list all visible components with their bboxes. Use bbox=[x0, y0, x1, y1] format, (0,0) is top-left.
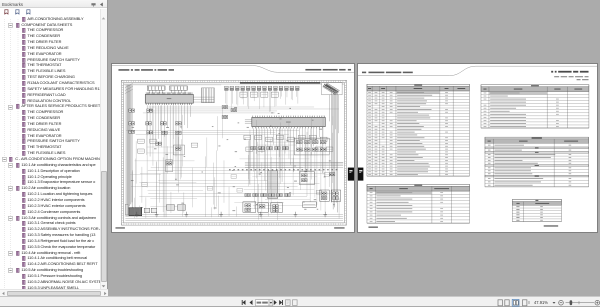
module A2 with connectors bbox=[299, 171, 314, 184]
wires from J1B pins bbox=[147, 105, 190, 164]
switch S16 bbox=[326, 147, 333, 151]
connector P12 bbox=[285, 86, 289, 105]
connector P8 bbox=[263, 86, 267, 107]
connector P14 bbox=[295, 86, 299, 104]
wires from loom W2 bbox=[330, 94, 339, 133]
connector C4 bbox=[146, 121, 152, 124]
wire bus crossing bbox=[245, 162, 343, 167]
connector comb CN1 bbox=[147, 85, 165, 92]
connector P5 bbox=[246, 86, 250, 109]
buzzer H2 bbox=[177, 204, 185, 209]
connector P4 bbox=[241, 86, 245, 104]
wire bundle center-left bbox=[164, 133, 178, 217]
footer right bbox=[544, 225, 558, 226]
switch S30 bbox=[144, 208, 149, 212]
relay K3 bbox=[261, 92, 268, 97]
switch S7 bbox=[266, 137, 273, 141]
connector P10 bbox=[274, 86, 278, 107]
switch S12 bbox=[320, 137, 327, 141]
connector in A1 bbox=[304, 148, 310, 151]
connector P13 bbox=[290, 86, 294, 100]
connector in A4 bbox=[259, 204, 265, 207]
module A7 with connectors bbox=[331, 190, 340, 201]
chapter thumb tab bbox=[348, 167, 354, 180]
connector in A2 bbox=[301, 178, 307, 181]
connector C31 bbox=[329, 172, 335, 175]
switch S20 bbox=[324, 172, 329, 176]
wires from J1A pins bbox=[253, 128, 322, 181]
terminal strip X1 bbox=[302, 201, 316, 206]
connector P6 bbox=[252, 86, 256, 101]
connector in A1 bbox=[296, 148, 302, 151]
connector in A6 bbox=[321, 191, 327, 194]
connector P9 bbox=[268, 86, 272, 112]
module A5 with connectors bbox=[271, 202, 283, 211]
connector in A5 bbox=[273, 208, 279, 211]
connector C26 bbox=[267, 146, 273, 149]
switch S8 bbox=[277, 135, 284, 139]
wire top run along frame bbox=[124, 83, 344, 86]
switch S5 bbox=[244, 135, 251, 139]
connector in A1 bbox=[312, 140, 318, 143]
switch S21 bbox=[237, 188, 242, 192]
header left bbox=[362, 71, 413, 73]
value labels scattered bbox=[131, 106, 335, 210]
page title left bbox=[118, 69, 174, 71]
connector J1A bbox=[252, 116, 325, 127]
connector C1 bbox=[129, 108, 135, 111]
connector J1B bbox=[145, 93, 193, 104]
wire bundle left vertical bbox=[125, 83, 133, 212]
connector C33 bbox=[253, 193, 259, 196]
connector of B2 bbox=[166, 161, 172, 164]
connector C12 bbox=[222, 115, 228, 118]
fuse F1 bbox=[125, 204, 128, 215]
connector in A7 bbox=[333, 191, 339, 194]
ground bbox=[259, 211, 263, 216]
relay K4 bbox=[271, 92, 278, 97]
switch S2 bbox=[150, 139, 156, 143]
connector C35 bbox=[269, 193, 275, 196]
switch S18 bbox=[207, 186, 212, 190]
connector P11 bbox=[279, 86, 283, 99]
ground bbox=[185, 211, 189, 216]
left page (schematic) bbox=[111, 63, 355, 233]
connector in A1 bbox=[296, 140, 302, 143]
connector C13 bbox=[231, 108, 237, 111]
connector C32 bbox=[245, 193, 251, 196]
header swoosh rule bbox=[112, 65, 354, 72]
connector C34 bbox=[261, 193, 267, 196]
connector in A1 bbox=[312, 148, 318, 151]
switch S6 bbox=[255, 135, 262, 139]
connector of B1 bbox=[175, 147, 181, 150]
connector in A7 bbox=[333, 196, 339, 199]
module A6 with connectors bbox=[320, 190, 329, 201]
sensor B2 bbox=[166, 159, 173, 171]
connector in A5 bbox=[273, 204, 279, 207]
connector C10 bbox=[175, 131, 181, 134]
switch S17 bbox=[142, 182, 147, 186]
header title right bbox=[551, 70, 588, 79]
connector C6 bbox=[129, 130, 135, 133]
connector P3 bbox=[235, 86, 239, 105]
switch S19 bbox=[231, 174, 236, 178]
switch S3 bbox=[138, 148, 144, 152]
ground bbox=[135, 211, 139, 216]
cable loom W2 diagonal bbox=[322, 82, 342, 94]
module A3 with connectors bbox=[243, 201, 256, 211]
module A1 with connectors bbox=[294, 138, 329, 155]
svg-text:47.91%: 47.91% bbox=[534, 300, 548, 305]
switch S22 bbox=[316, 190, 321, 194]
relay K5 power block bbox=[129, 207, 142, 215]
ground bbox=[155, 211, 159, 216]
buzzer H1 bbox=[167, 204, 175, 209]
switch S11 bbox=[309, 135, 316, 139]
resistor R1 dropping bbox=[268, 170, 278, 198]
connector P2 bbox=[230, 86, 234, 111]
page title right bbox=[305, 68, 351, 70]
relay K2 bbox=[250, 92, 257, 97]
connector C27 bbox=[275, 146, 281, 149]
connector C25 bbox=[259, 146, 265, 149]
wires J1B to loom W1 bbox=[193, 97, 214, 102]
ground bbox=[323, 211, 327, 216]
switch S10 bbox=[298, 135, 305, 139]
bookmarks panel bbox=[0, 0, 108, 296]
wire bus top band bbox=[240, 81, 320, 83]
connector C8 bbox=[147, 130, 153, 133]
connector in A2 bbox=[301, 173, 307, 176]
connector C5 bbox=[161, 121, 167, 124]
value labels row bbox=[229, 168, 337, 171]
module A4 with connector bbox=[258, 202, 268, 211]
ground bbox=[294, 211, 298, 216]
switch S31 bbox=[151, 208, 156, 212]
wire bundle right vertical bbox=[332, 90, 338, 212]
connector C11 bbox=[222, 105, 228, 108]
switch S9 bbox=[288, 137, 295, 141]
connector in A6 bbox=[321, 196, 327, 199]
sensor B1 bbox=[173, 145, 184, 155]
connector in A1 bbox=[320, 140, 326, 143]
right page (tables) bbox=[357, 63, 598, 233]
wires vertical runs bbox=[132, 104, 333, 219]
cable loom W1 bbox=[201, 87, 214, 102]
footer left bbox=[115, 227, 124, 228]
connector in A1 bbox=[320, 148, 326, 151]
connector C24 bbox=[251, 146, 257, 149]
connector C3 bbox=[129, 121, 135, 124]
footer right bbox=[334, 227, 344, 228]
switch S14 bbox=[258, 147, 265, 151]
relay K1 bbox=[240, 92, 247, 97]
ground bbox=[219, 211, 223, 216]
connector in A1 bbox=[304, 140, 310, 143]
wire bus bottom bbox=[125, 184, 343, 220]
switch S1 bbox=[138, 139, 144, 143]
connector comb CN2 bbox=[170, 85, 188, 92]
switch S13 bbox=[246, 147, 253, 151]
switch S15 bbox=[315, 147, 322, 151]
connector in A3 bbox=[245, 208, 251, 211]
connector C36 bbox=[277, 193, 283, 196]
footer left bbox=[368, 226, 377, 227]
connector P7 bbox=[257, 86, 261, 109]
connector C9 bbox=[162, 131, 168, 134]
connector C38 bbox=[156, 142, 162, 145]
connector C2 bbox=[147, 108, 153, 111]
schematic border frame bbox=[121, 80, 346, 225]
connector C37 bbox=[285, 193, 291, 196]
connector P1 bbox=[225, 86, 229, 105]
switch S4 bbox=[191, 143, 197, 147]
connector in A3 bbox=[245, 203, 251, 206]
wires into J1A left side bbox=[245, 119, 252, 122]
connector C7 bbox=[175, 121, 181, 124]
wires horizontal runs bbox=[126, 106, 343, 207]
bottom toolbar bbox=[0, 296, 600, 306]
connector C28 bbox=[283, 146, 289, 149]
